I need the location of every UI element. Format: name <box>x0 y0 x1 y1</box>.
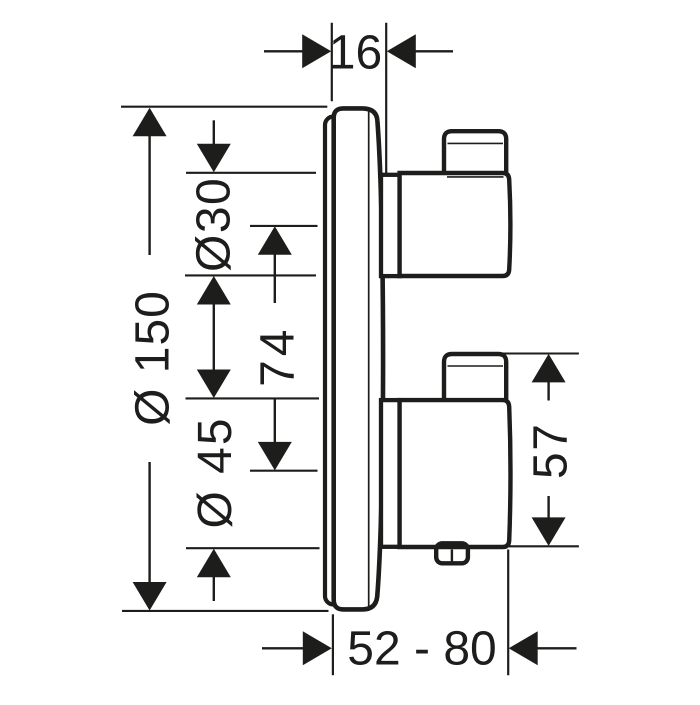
arrow D45 down <box>197 370 231 399</box>
lower handle block <box>400 400 511 547</box>
svg-text:Ø 150: Ø 150 <box>127 290 180 426</box>
arrow D30 down <box>197 144 231 173</box>
tail D30 above <box>213 120 215 146</box>
arrow D30 up <box>197 276 231 305</box>
upper handle neck <box>381 175 400 276</box>
arrow D150 up <box>133 108 167 137</box>
ext line 52-80 left <box>332 614 334 675</box>
upper handle block <box>400 173 511 276</box>
tail 16 right <box>415 50 454 52</box>
dim line D150 top <box>121 106 327 108</box>
dim line D30 bottom <box>185 274 316 276</box>
arrow 74 up <box>258 226 292 255</box>
dim line D30 top <box>186 172 316 174</box>
arrow 16 left <box>302 34 331 68</box>
arrow 52-80 left <box>303 631 332 665</box>
tail 16 left <box>264 50 304 52</box>
lower lever inner line <box>448 365 504 367</box>
tail D150 lower <box>148 462 150 584</box>
tail 74 upper <box>274 253 276 303</box>
dim line 74 bottom <box>250 470 318 472</box>
svg-text:52 - 80: 52 - 80 <box>347 623 496 676</box>
escutcheon back rim <box>325 117 345 605</box>
dim line D45 top <box>186 397 320 399</box>
upper junction thin line <box>447 176 504 178</box>
dim line 57 bottom <box>509 545 579 547</box>
lower bottom tab <box>436 543 468 563</box>
tail 74 lower <box>274 399 276 445</box>
svg-text:57: 57 <box>525 423 578 479</box>
lower handle neck <box>381 400 400 547</box>
tab divider <box>451 550 453 563</box>
arrow 74 down <box>258 442 292 471</box>
upper handle lever <box>444 131 506 175</box>
lower handle lever <box>444 354 506 402</box>
svg-text:74: 74 <box>252 326 305 387</box>
dim line D150 bottom <box>122 610 329 612</box>
arrow D150 down <box>133 582 167 611</box>
dim line D45 bottom <box>186 547 320 549</box>
arrow 57 up <box>532 354 566 383</box>
tail 57 upper <box>547 381 549 401</box>
ext line 16 right <box>385 23 387 174</box>
tail mid column <box>213 303 215 371</box>
tail 52-80 right <box>537 647 577 649</box>
arrow D45 up <box>197 549 231 578</box>
tail 57 lower <box>547 496 549 519</box>
svg-text:Ø30: Ø30 <box>188 177 241 272</box>
arrow 57 down <box>532 517 566 546</box>
ext line 52-80 right <box>507 550 509 676</box>
arrow 16 right <box>387 34 416 68</box>
tail D150 upper <box>148 134 150 255</box>
front plate body <box>334 108 383 609</box>
dim line 57 top <box>500 352 579 354</box>
svg-text:Ø 45: Ø 45 <box>189 416 242 528</box>
arrow 52-80 right <box>509 631 538 665</box>
ext line 16 left <box>331 23 333 102</box>
dim line 74 top <box>250 225 318 227</box>
tail 52-80 left <box>262 647 304 649</box>
svg-text:16: 16 <box>329 26 382 79</box>
upper lever inner line <box>448 142 504 144</box>
tail D45 below <box>213 576 215 601</box>
plate face line <box>368 112 370 607</box>
